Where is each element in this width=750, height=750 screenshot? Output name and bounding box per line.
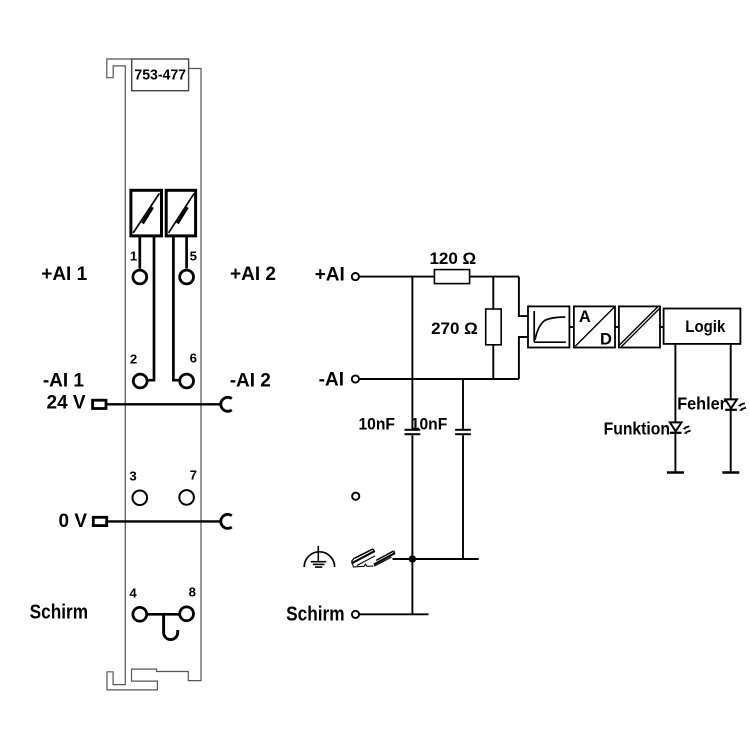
wire filter to AD: [569, 326, 574, 328]
wire branch to R270: [492, 277, 494, 309]
svg-text:D: D: [600, 331, 612, 349]
capacitor C2: [455, 430, 471, 434]
0V socket arc: [221, 514, 232, 528]
wire S1 to pin 1: [138, 236, 141, 269]
svg-text:Logik: Logik: [685, 318, 725, 336]
svg-text:6: 6: [190, 350, 197, 365]
svg-text:+AI 1: +AI 1: [41, 264, 87, 285]
A/D converter box U2: [574, 306, 615, 348]
module outline 753-477 bus terminal: [107, 59, 201, 690]
isolator box U3: [619, 306, 660, 347]
node Schirm terminal: [352, 611, 359, 618]
wire +AI to R120: [359, 276, 434, 278]
svg-text:A: A: [579, 308, 591, 326]
svg-text:Schirm: Schirm: [286, 603, 344, 626]
svg-text:270 Ω: 270 Ω: [431, 319, 478, 338]
svg-text:-AI: -AI: [319, 369, 344, 390]
svg-text:-AI 2: -AI 2: [230, 370, 271, 391]
24V plug square: [93, 400, 106, 408]
wire S1 to pin 2: [148, 236, 154, 380]
svg-text:Funktion: Funktion: [604, 419, 670, 439]
terminator bar left: [667, 471, 684, 473]
wire 0V: [107, 520, 222, 522]
wire Logik output right: [730, 344, 732, 473]
svg-text:5: 5: [190, 248, 197, 263]
wire 24V: [106, 403, 222, 405]
svg-text:10nF: 10nF: [358, 415, 395, 434]
wire -AI line: [359, 378, 519, 380]
svg-text:2: 2: [130, 351, 137, 366]
terminator bar right: [722, 471, 739, 473]
svg-text:24 V: 24 V: [47, 392, 86, 413]
wire R120 to corner: [470, 276, 519, 278]
wire +AI junction down to C1: [411, 277, 413, 429]
svg-text:8: 8: [189, 584, 196, 599]
24V socket arc: [221, 397, 232, 411]
node +AI terminal: [352, 273, 359, 280]
wire C1 to ground line: [411, 435, 413, 559]
Logik box U4: [664, 309, 741, 344]
wire AD to isolator: [615, 326, 619, 328]
resistor R 120 ohm: [434, 270, 469, 284]
DIN rail symbol: [352, 549, 395, 567]
svg-text:1: 1: [130, 248, 137, 263]
svg-text:120 Ω: 120 Ω: [429, 249, 476, 268]
svg-text:0 V: 0 V: [58, 511, 87, 532]
sensor symbol S2: [166, 190, 195, 236]
junction dot: [409, 555, 416, 562]
wire Schirm: [359, 613, 428, 615]
svg-text:3: 3: [129, 468, 136, 483]
wire S2 to pin 5: [185, 236, 188, 269]
wire R270 to -AI line: [492, 345, 494, 379]
svg-text:-AI 1: -AI 1: [43, 370, 85, 391]
wire -AI up to filter lower stub: [519, 337, 528, 379]
svg-text:753-477: 753-477: [134, 67, 186, 83]
node floating terminal: [352, 493, 359, 500]
wire S2 to pin 6: [173, 236, 178, 380]
wire C2 to ground line: [462, 435, 464, 559]
LED Funktion: [670, 422, 691, 434]
svg-text:7: 7: [190, 467, 197, 482]
wire -AI junction down to C2: [462, 379, 464, 429]
wire junction to Schirm line: [411, 559, 413, 614]
svg-text:+AI: +AI: [315, 264, 345, 285]
earth symbol: [304, 546, 334, 567]
capacitor C1: [405, 430, 421, 434]
svg-text:Fehler: Fehler: [677, 394, 726, 414]
filter box U1: [528, 306, 569, 347]
wire pin4 to pin8 link: [147, 613, 179, 616]
svg-text:Schirm: Schirm: [30, 601, 88, 624]
svg-text:4: 4: [129, 585, 137, 600]
label box 753-477: [132, 59, 189, 91]
LED Fehler: [725, 399, 746, 411]
wire Logik output left: [674, 344, 676, 473]
wire down to filter upper stub: [519, 277, 528, 317]
node -AI terminal: [352, 375, 359, 382]
sensor symbol S1: [131, 190, 162, 236]
wire ground bus: [393, 558, 479, 560]
shield hook wire: [164, 614, 178, 639]
wire isolator to Logik: [660, 326, 664, 328]
resistor R 270 ohm: [486, 309, 502, 345]
svg-text:+AI 2: +AI 2: [230, 264, 276, 285]
0V plug square: [93, 517, 106, 525]
